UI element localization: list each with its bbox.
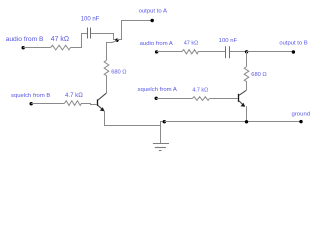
node: output to B terminal [279, 41, 307, 54]
node: squelch from A terminal [138, 87, 177, 100]
resistor R1 47 kOhm [51, 36, 71, 50]
wire: Q2 emitter down to ground rail [246, 106, 248, 121]
wire: node A to output A terminal [117, 21, 152, 40]
svg-text:output to A: output to A [139, 9, 167, 15]
node A junction dot [115, 39, 118, 42]
wire: C1 to node A [91, 34, 117, 40]
svg-text:squelch from A: squelch from A [138, 87, 177, 93]
node: audio from B terminal [6, 36, 44, 49]
wire: ground symbol stem [160, 126, 162, 144]
svg-text:audio from A: audio from A [140, 41, 173, 47]
wire: R1 to C1 [71, 34, 88, 48]
node: output to A terminal [139, 9, 167, 22]
svg-text:100 nF: 100 nF [81, 15, 100, 22]
node: squelch from B terminal [11, 93, 50, 105]
svg-text:4.7 kΩ: 4.7 kΩ [65, 92, 83, 99]
svg-text:ground: ground [292, 112, 311, 118]
ground symbol [153, 144, 169, 151]
node B junction dot [245, 50, 248, 53]
wire: ground rail to Q2 emitter and ground terminal [164, 121, 301, 123]
wire: R4 to C2 [198, 51, 225, 53]
resistor R6 4.7 kOhm [192, 88, 209, 101]
wire: audio A terminal to R4 [157, 51, 182, 53]
svg-text:4.7 kΩ: 4.7 kΩ [192, 88, 208, 94]
transistor Q1 (NPN) [98, 93, 107, 111]
wire: Q1 emitter down to ground rail [105, 111, 161, 126]
wire: audio B terminal to R1 [23, 47, 50, 49]
wire: R2 to Q1 collector [106, 76, 108, 94]
svg-text:680 Ω: 680 Ω [111, 69, 127, 75]
wire: node B to output B terminal [247, 51, 294, 53]
wire: squelch A terminal to R6 [156, 98, 192, 100]
svg-text:audio from B: audio from B [6, 36, 44, 43]
wire: node A down to R2 [107, 41, 117, 61]
capacitor C1 100 nF [81, 15, 100, 38]
svg-text:squelch from B: squelch from B [11, 93, 50, 99]
svg-text:100 nF: 100 nF [219, 38, 238, 44]
node: ground terminal [292, 112, 311, 124]
wire: C2 to node B [230, 51, 247, 53]
capacitor C2 100 nF [219, 38, 238, 58]
node: ground rail junction dot [163, 120, 166, 123]
node: audio from A terminal [140, 41, 173, 54]
svg-text:680 Ω: 680 Ω [251, 72, 267, 78]
node: Q2 emitter / ground rail junction dot [245, 120, 248, 123]
wire: R6 to Q2 base [210, 98, 238, 100]
svg-text:47 kΩ: 47 kΩ [51, 36, 69, 43]
wire: R5 to Q2 collector [246, 81, 248, 90]
wire: jog up to ground node [161, 122, 165, 126]
svg-text:output to B: output to B [279, 41, 307, 47]
wire: R3 to Q1 base [82, 104, 97, 105]
resistor R2 680 Ohm (vertical) [104, 60, 127, 75]
wire: squelch B terminal to R3 [31, 103, 64, 105]
resistor R4 47 kOhm [182, 41, 199, 54]
transistor Q2 (NPN) [239, 90, 247, 106]
resistor R3 4.7 kOhm [65, 92, 84, 105]
wire: node B down to R5 [246, 52, 248, 67]
resistor R5 680 Ohm (vertical) [244, 67, 267, 82]
svg-text:47 kΩ: 47 kΩ [184, 41, 199, 47]
